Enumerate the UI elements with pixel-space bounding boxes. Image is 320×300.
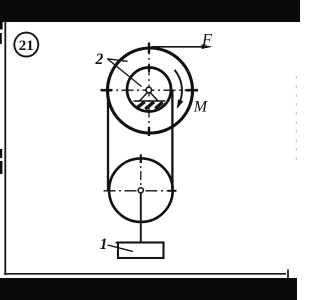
svg-text:1: 1 bbox=[100, 236, 108, 253]
svg-text:F: F bbox=[201, 30, 213, 49]
svg-text:M: M bbox=[193, 99, 209, 116]
svg-text:2: 2 bbox=[95, 51, 104, 68]
svg-text:21: 21 bbox=[19, 38, 34, 54]
